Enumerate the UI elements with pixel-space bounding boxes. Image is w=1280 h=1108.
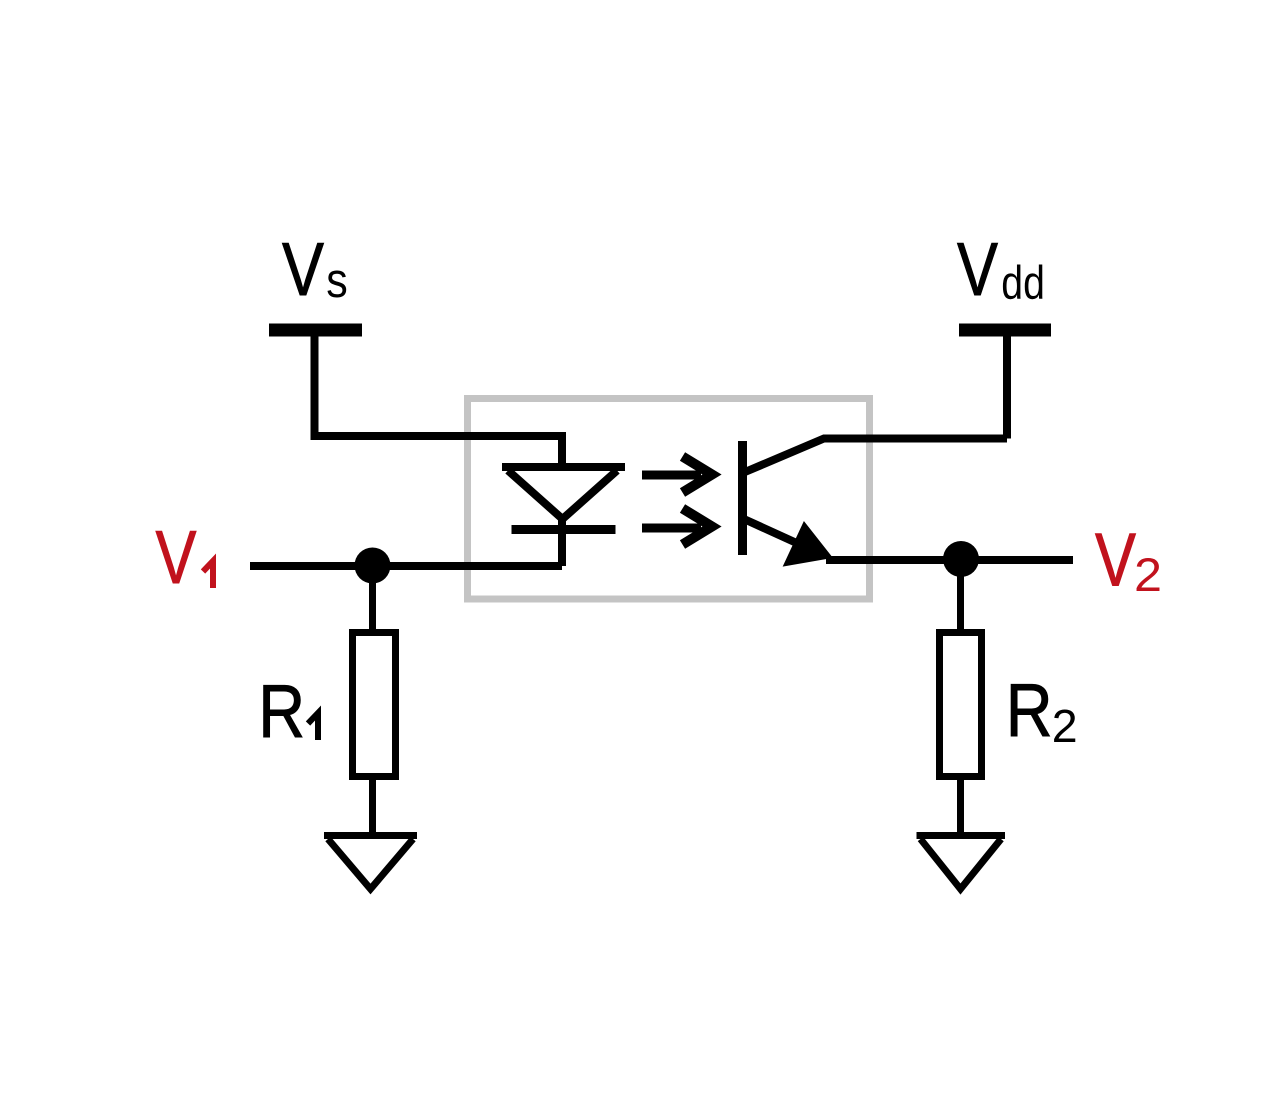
wire R1 to ground [369, 776, 376, 838]
junction node V2 [943, 541, 979, 577]
wire V1 net [250, 562, 562, 570]
svg-text:2: 2 [1134, 548, 1162, 601]
svg-text:R: R [1006, 668, 1053, 752]
light arrow 2 [642, 509, 712, 545]
supply bar Vdd [959, 324, 1051, 337]
junction node V1 [355, 548, 391, 584]
light arrow 1 [642, 457, 712, 493]
LED D1 triangle (anode) [502, 463, 625, 471]
svg-text:s: s [326, 254, 348, 308]
svg-text:V: V [957, 227, 998, 311]
svg-text:R: R [258, 669, 305, 753]
LED D1 cathode bar [512, 525, 616, 534]
supply bar Vs [269, 324, 362, 337]
wire LED cathode down to V1 net [558, 516, 566, 566]
optocoupler package outline U1 [468, 399, 870, 600]
svg-text:2: 2 [1052, 700, 1078, 752]
svg-text:V: V [282, 227, 324, 311]
phototransistor Q1 emitter arrow [784, 522, 833, 566]
resistor R2 [940, 633, 982, 777]
svg-text:dd: dd [1001, 256, 1045, 309]
phototransistor Q1 base bar [738, 441, 747, 555]
phototransistor Q1 collector wire to Vdd [745, 439, 1007, 473]
wire R2 to ground [957, 776, 964, 838]
ground symbol left [324, 832, 417, 839]
phototransistor Q1 emitter line [745, 520, 812, 551]
wire V2 to R2 [957, 560, 964, 634]
svg-text:V: V [1095, 518, 1136, 602]
ground symbol right [917, 832, 1006, 839]
resistor R1 [353, 633, 396, 777]
svg-text:V: V [156, 515, 197, 599]
wire V1 to R1 [369, 566, 376, 634]
wire emitter to V2 [826, 556, 1073, 564]
wire Vdd to collector [1003, 336, 1011, 439]
wire Vs to LED anode [315, 336, 563, 469]
